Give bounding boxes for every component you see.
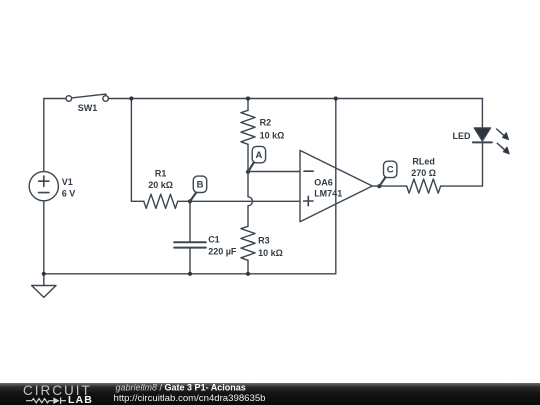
node C label box (384, 161, 397, 177)
op-amp non-inverting input pin mark (304, 196, 313, 205)
junction dot ground rail R3 (246, 272, 250, 276)
svg-text:SW1: SW1 (78, 103, 98, 113)
op-amp inverting input pin mark (304, 170, 313, 172)
svg-text:10 kΩ: 10 kΩ (258, 248, 283, 258)
node A junction dot (246, 170, 250, 174)
footer bar (0, 383, 540, 405)
wire R2 to node A (247, 144, 249, 172)
node A leader (248, 163, 254, 172)
svg-text:R1: R1 (155, 168, 167, 178)
wire top-left from V1 to SW1 (44, 99, 66, 172)
svg-text:B: B (197, 180, 204, 191)
wire node B down to C1 (189, 201, 191, 242)
node B leader (190, 192, 196, 201)
wire V1 bottom to ground rail (43, 201, 45, 274)
wire C1 to ground rail (189, 248, 191, 274)
resistor R1 (144, 194, 178, 208)
wire node B to op-amp + input (190, 200, 300, 202)
svg-text:LM741: LM741 (314, 188, 342, 198)
wire op-amp output to RLed (372, 185, 406, 187)
svg-text:OA6: OA6 (314, 178, 333, 188)
wire node A down to R3 with hop around the + input wire (248, 172, 253, 227)
LED light arrow 1 (497, 129, 509, 140)
CircuitLab logo wordmark (23, 383, 93, 405)
resistor R2 (241, 110, 255, 144)
junction dot top rail op-amp supply (334, 96, 338, 100)
svg-text:A: A (255, 150, 262, 161)
node C junction dot (377, 184, 381, 188)
wire node A to op-amp - input (248, 171, 300, 173)
junction dot ground rail C1 (188, 272, 192, 276)
junction dot ground rail V1 (42, 272, 46, 276)
wire R1 to node B (178, 200, 190, 202)
capacitor C1 (174, 242, 206, 247)
voltage source V1 (29, 172, 58, 201)
node C leader (379, 177, 385, 186)
wire op-amp supply vertical (335, 99, 337, 274)
wire RLed to LED (441, 142, 483, 186)
svg-text:10 kΩ: 10 kΩ (260, 130, 285, 140)
svg-text:270 Ω: 270 Ω (411, 168, 436, 178)
wire left branch down to R1 (131, 99, 143, 202)
LED diode (473, 99, 492, 143)
svg-text:6 V: 6 V (62, 188, 76, 198)
svg-text:LAB: LAB (68, 394, 93, 405)
svg-text:LED: LED (453, 131, 472, 141)
svg-text:RLed: RLed (412, 157, 435, 167)
switch SW1 (66, 94, 108, 101)
svg-text:C: C (387, 165, 394, 176)
junction dot top rail R1 branch (129, 96, 133, 100)
node B junction dot (188, 199, 192, 203)
svg-text:R3: R3 (258, 236, 270, 246)
resistor R3 (241, 226, 255, 260)
LED light arrow 2 (497, 143, 509, 154)
svg-text:http://circuitlab.com/cn4dra39: http://circuitlab.com/cn4dra398635b (114, 393, 266, 404)
node B label box (193, 176, 206, 192)
svg-text:gabriellm8 / Gate 3 P1- Aciona: gabriellm8 / Gate 3 P1- Acionas (116, 382, 246, 392)
svg-text:V1: V1 (62, 177, 73, 187)
wire R3 to ground rail (247, 260, 249, 274)
junction dot top rail R2 (246, 96, 250, 100)
node A label box (252, 146, 265, 162)
svg-text:C1: C1 (208, 235, 220, 245)
wire top rail to R2 (247, 99, 249, 111)
svg-text:R2: R2 (260, 118, 272, 128)
CircuitLab logo resistor-diode glyph (26, 397, 66, 404)
svg-text:220 µF: 220 µF (208, 247, 237, 257)
footer title text (114, 382, 266, 403)
resistor RLed (407, 179, 441, 193)
wire bottom rail (44, 273, 336, 275)
wire top rail from SW1 to LED corner (108, 98, 482, 100)
ground (32, 274, 56, 298)
op-amp OA6 LM741 triangle (300, 150, 372, 221)
svg-text:20 kΩ: 20 kΩ (148, 180, 173, 190)
